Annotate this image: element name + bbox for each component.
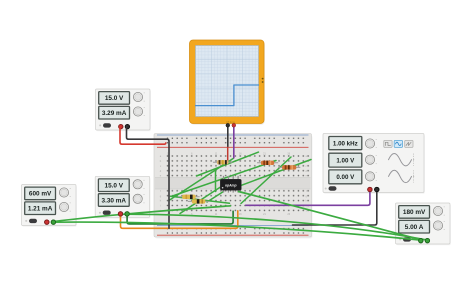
svg-text:1.00 kHz: 1.00 kHz [333,140,358,147]
svg-text:0.00 V: 0.00 V [336,174,355,181]
svg-text:3.29 mA: 3.29 mA [102,110,127,117]
svg-text:600 mV: 600 mV [29,191,52,198]
svg-text:5.00 A: 5.00 A [405,224,424,231]
svg-text:opAmp: opAmp [225,183,237,187]
svg-text:15.0 V: 15.0 V [105,95,124,102]
svg-text:1.21 mA: 1.21 mA [28,206,53,213]
svg-text:180 mV: 180 mV [403,209,426,216]
svg-text:15.0 V: 15.0 V [105,183,124,190]
svg-text:3.30 mA: 3.30 mA [102,197,127,204]
svg-text:1.00 V: 1.00 V [336,157,355,164]
